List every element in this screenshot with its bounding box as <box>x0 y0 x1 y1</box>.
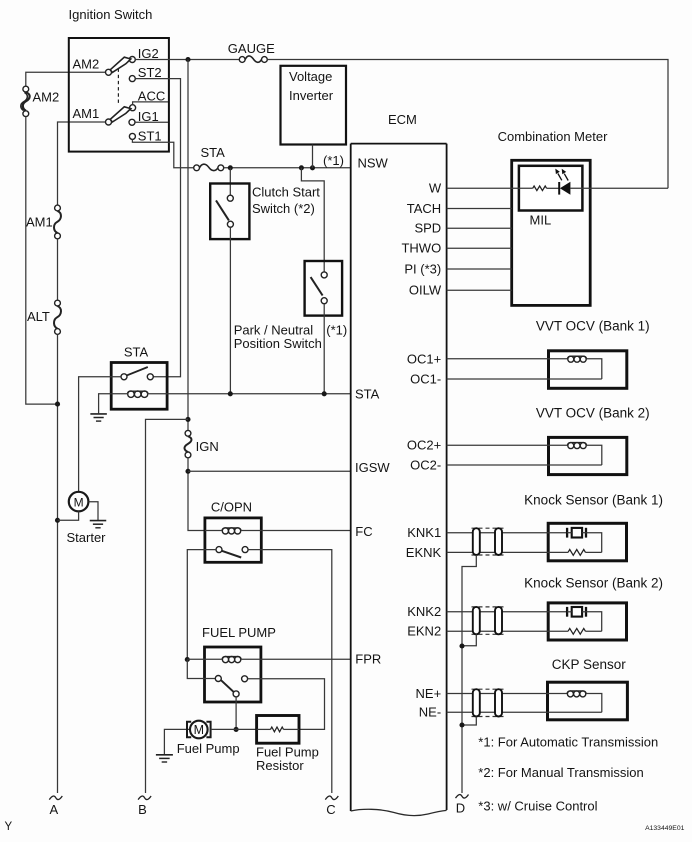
knock bank1 piezo <box>566 528 568 538</box>
svg-text:EKNK: EKNK <box>406 545 442 560</box>
shield drain CKP <box>462 717 476 726</box>
svg-text:SPD: SPD <box>414 221 441 236</box>
terminal ACC <box>130 105 136 111</box>
STA relay box <box>111 363 167 410</box>
fuel pump bracket right <box>206 722 210 737</box>
ground starter <box>90 520 107 522</box>
wire NE- <box>447 711 602 713</box>
VVT bank2 coil <box>567 443 586 446</box>
svg-text:IG1: IG1 <box>138 109 159 124</box>
ignition switch box <box>69 38 169 152</box>
svg-text:Voltage: Voltage <box>289 69 332 84</box>
combination meter box <box>512 160 591 305</box>
MIL inner box <box>519 166 583 211</box>
knock bank2 resistor <box>568 628 586 634</box>
svg-text:OC1-: OC1- <box>410 371 441 386</box>
svg-text:A133449E01: A133449E01 <box>645 825 685 832</box>
STA relay contact right <box>147 374 153 380</box>
wire IG1 stub <box>135 121 168 123</box>
fuse AM2 <box>23 86 29 92</box>
wire TACH to combination meter <box>447 208 512 210</box>
junction dot clutch branch <box>228 165 233 170</box>
svg-text:FPR: FPR <box>355 652 381 667</box>
wire fuel pump right lead <box>211 728 257 730</box>
junction dot park/neutral branch <box>299 165 304 170</box>
C/OPN contact left <box>216 547 222 553</box>
svg-text:Clutch Start: Clutch Start <box>252 185 320 200</box>
clutch switch blade <box>216 200 229 220</box>
wire KNK2 <box>447 611 567 613</box>
junction dot IGSW branch <box>185 469 190 474</box>
C/OPN contact right <box>242 547 248 553</box>
twisted pair capsule knock2 a <box>473 607 480 634</box>
junction dot IGN top / B branch <box>185 417 190 422</box>
wire OC2- return <box>447 464 602 466</box>
wire OILW to combination meter <box>447 289 512 291</box>
ECM bottom torn edge <box>351 809 447 815</box>
svg-text:Knock Sensor (Bank 2): Knock Sensor (Bank 2) <box>524 576 663 591</box>
svg-text:C/OPN: C/OPN <box>211 499 252 514</box>
wire starter to junction <box>58 511 79 520</box>
svg-text:Position Switch: Position Switch <box>234 336 322 351</box>
shield drain knock1 <box>462 555 476 793</box>
ECM right edge <box>446 144 448 810</box>
fuse STA <box>194 165 200 171</box>
twisted pair capsule CKP a <box>473 689 480 716</box>
svg-text:*2: For Manual Transmission: *2: For Manual Transmission <box>478 765 643 780</box>
fp relay blade <box>221 680 234 692</box>
svg-text:Inverter: Inverter <box>289 88 334 103</box>
svg-text:(*1): (*1) <box>326 323 347 338</box>
wire AM2 terminal to AM2 fuse <box>26 72 106 86</box>
C/OPN relay box <box>205 518 261 562</box>
svg-text:AM2: AM2 <box>73 57 100 72</box>
fuel pump motor circle <box>190 721 208 739</box>
wire VVT bank2 coil loop <box>587 445 602 465</box>
twisted pair capsule CKP b <box>495 689 502 716</box>
svg-text:STA: STA <box>124 344 149 359</box>
svg-text:ST2: ST2 <box>138 65 162 80</box>
svg-text:(*1): (*1) <box>323 153 344 168</box>
svg-text:THWO: THWO <box>401 241 441 256</box>
wire ST1 to STA fuse <box>132 139 193 168</box>
CKP coil <box>567 691 586 694</box>
STA relay contact left <box>121 374 127 380</box>
junction dot IG2 branch <box>185 57 190 62</box>
wire IG2 vertical to IGN fuse <box>187 60 189 431</box>
junction dot fuel pump motor <box>234 727 239 732</box>
wire knock bank1 loop <box>586 533 602 553</box>
starter motor circle <box>69 492 89 512</box>
wire W to MIL resistor <box>447 187 533 189</box>
VVT OCV bank2 box <box>549 437 627 474</box>
wire ALT fuse down to connector A <box>57 334 59 793</box>
svg-text:IG2: IG2 <box>138 46 159 61</box>
wire STA relay coil to ground <box>99 394 112 413</box>
wire AM2 fuse down to junction <box>26 117 55 405</box>
svg-text:Knock Sensor (Bank 1): Knock Sensor (Bank 1) <box>524 493 663 508</box>
fuel pump resistor box <box>257 716 299 744</box>
svg-text:OC2+: OC2+ <box>407 438 441 453</box>
knock bank1 resistor <box>568 550 586 556</box>
wire EKNK <box>447 551 568 553</box>
wire THWO to combination meter <box>447 247 512 249</box>
fuse GAUGE <box>239 57 245 63</box>
svg-text:Starter: Starter <box>67 530 107 545</box>
MIL LED arrow 1 <box>558 174 562 181</box>
wire fuel pump left lead <box>164 729 190 754</box>
fp relay contact left <box>215 676 221 682</box>
voltage inverter box <box>281 66 347 145</box>
junction dot starter branch <box>55 518 60 523</box>
wire fp bottom contact down <box>235 697 237 730</box>
terminal AM2 <box>106 69 112 75</box>
connector A break <box>49 796 62 800</box>
svg-text:FC: FC <box>355 524 372 539</box>
junction dot shield drain knock2 <box>459 643 464 648</box>
wire EKN2 <box>447 630 568 632</box>
wire NE+ <box>447 693 567 695</box>
terminal IG1 <box>129 119 135 125</box>
svg-text:STA: STA <box>201 145 226 160</box>
VVT OCV bank1 box <box>549 351 627 389</box>
svg-text:*3: w/ Cruise Control: *3: w/ Cruise Control <box>478 798 597 813</box>
terminal ST2 <box>129 76 135 82</box>
junction dot clutch to STA wire <box>228 391 233 396</box>
C/OPN blade <box>222 551 241 558</box>
fp relay contact right <box>242 676 248 682</box>
ECM top edge <box>351 143 447 145</box>
fuse IGN <box>185 430 191 436</box>
svg-text:VVT OCV (Bank 2): VVT OCV (Bank 2) <box>536 406 650 421</box>
wire between AM1 and ALT fuses <box>57 239 59 300</box>
svg-text:IGN: IGN <box>196 439 219 454</box>
wire MIL resistor to LED <box>547 187 560 189</box>
wire PI (*3) to combination meter <box>447 268 512 270</box>
wire fp coil to ECM FPR <box>261 658 351 660</box>
svg-text:C: C <box>326 802 335 817</box>
ECM left edge <box>350 144 352 811</box>
svg-text:OC1+: OC1+ <box>407 351 441 366</box>
terminal AM1 <box>106 119 112 125</box>
svg-text:Ignition Switch: Ignition Switch <box>69 7 153 22</box>
wire MIL LED to right <box>570 187 668 189</box>
svg-text:NE-: NE- <box>419 705 441 720</box>
twisted pair capsule knock2 b <box>495 607 502 634</box>
dashed mechanical link <box>117 69 119 105</box>
wire AM1 terminal to left line <box>58 122 106 205</box>
wire OC2+ to coil <box>447 444 568 446</box>
connector C break <box>325 796 338 800</box>
svg-text:*1: For Automatic Transmission: *1: For Automatic Transmission <box>478 735 658 750</box>
terminal ST1 <box>129 133 135 139</box>
svg-text:ACC: ACC <box>138 88 165 103</box>
wire CKP coil loop <box>586 694 602 713</box>
svg-text:ST1: ST1 <box>138 129 162 144</box>
svg-text:Switch (*2): Switch (*2) <box>252 201 315 216</box>
svg-text:D: D <box>456 800 465 815</box>
wire p/n switch to STA wire <box>323 304 325 394</box>
svg-text:EKN2: EKN2 <box>407 624 441 639</box>
svg-text:NE+: NE+ <box>416 686 442 701</box>
MIL resistor <box>533 186 547 191</box>
junction dot fuel pump coil <box>185 657 190 662</box>
wire junction to fuel pump coil <box>187 658 204 660</box>
wire STA relay coil to ECM STA <box>167 393 351 395</box>
svg-text:AM2: AM2 <box>33 90 60 105</box>
twisted pair capsule knock1 a <box>473 528 480 555</box>
shield dashes CKP <box>472 688 504 690</box>
svg-text:AM1: AM1 <box>26 215 53 230</box>
svg-text:B: B <box>138 802 147 817</box>
twisted pair capsule knock1 b <box>495 528 502 555</box>
wire KNK1 <box>447 532 567 534</box>
park/neutral switch box <box>305 261 343 316</box>
wire to park/neutral switch <box>301 168 324 272</box>
wire C/OPN coil to ECM FC <box>261 530 350 532</box>
rotor blade AM1-ACC <box>110 107 131 122</box>
p/n switch top contact <box>321 272 327 278</box>
svg-text:KNK1: KNK1 <box>407 525 441 540</box>
svg-text:IGSW: IGSW <box>355 460 390 475</box>
terminal IG2 <box>129 57 135 63</box>
svg-text:OILW: OILW <box>409 283 442 298</box>
ground fuel pump <box>156 754 173 756</box>
C/OPN relay coil <box>222 528 241 531</box>
svg-text:VVT OCV (Bank 1): VVT OCV (Bank 1) <box>536 319 650 334</box>
fp relay contact bottom <box>233 691 239 697</box>
svg-text:GAUGE: GAUGE <box>228 41 275 56</box>
svg-text:PI (*3): PI (*3) <box>404 261 441 276</box>
p/n switch bottom contact <box>321 298 327 304</box>
wire junction down to fp switch <box>187 660 215 679</box>
wire STA fuse to ECM NSW <box>224 167 351 169</box>
junction dot voltage inverter lead <box>310 165 315 170</box>
svg-text:A: A <box>49 802 58 817</box>
junction dot p/n to STA wire <box>322 391 327 396</box>
wire STA relay switch to starter <box>79 377 121 492</box>
CKP sensor box <box>548 682 628 720</box>
svg-text:MIL: MIL <box>530 213 552 228</box>
wire ACC stub <box>133 102 168 105</box>
wire IG2 to GAUGE fuse <box>135 59 239 61</box>
wire IGSW to ECM <box>188 470 351 472</box>
wire starter to ground <box>88 502 98 520</box>
connector D break <box>456 795 469 799</box>
junction dot shield drain CKP <box>459 722 464 727</box>
wire fp right contact to resistor <box>248 679 325 730</box>
wire OC1+ to coil <box>447 358 568 360</box>
wire voltage inverter lead <box>312 145 314 168</box>
MIL LED cathode bar <box>558 182 560 195</box>
STA relay coil <box>127 391 148 394</box>
shield dashes knock1 <box>472 527 504 529</box>
svg-text:Combination Meter: Combination Meter <box>498 129 608 144</box>
knock bank1 box <box>548 523 626 561</box>
fuel pump bracket left <box>187 722 191 737</box>
svg-text:W: W <box>429 181 442 196</box>
svg-text:M: M <box>74 495 84 509</box>
rotor blade AM2-IG2 <box>110 57 131 72</box>
clutch start switch box <box>210 184 249 240</box>
wire C/OPN switch to connector C <box>248 550 332 793</box>
wire IGN fuse to C/OPN coil <box>188 458 205 531</box>
junction dot AM2/AM1 lines <box>55 402 60 407</box>
fuse ALT <box>55 300 61 306</box>
fuel pump relay coil <box>222 657 241 660</box>
svg-text:OC2-: OC2- <box>410 457 441 472</box>
svg-text:Y: Y <box>5 821 13 833</box>
wire clutch switch to STA wire <box>229 227 231 394</box>
MIL LED arrow 2 <box>564 174 568 181</box>
wire knock bank2 loop <box>586 612 602 632</box>
wire VVT bank1 coil loop <box>587 359 602 379</box>
connector B break <box>138 796 151 800</box>
VVT bank1 coil <box>567 356 586 359</box>
wire branch to connector B <box>146 419 189 793</box>
svg-text:AM1: AM1 <box>73 106 100 121</box>
p/n switch blade <box>311 277 323 295</box>
shield dashes knock2 <box>472 606 504 608</box>
wire to clutch switch <box>229 168 231 195</box>
STA relay blade <box>127 367 148 375</box>
wire GAUGE fuse to top right corner <box>267 60 668 189</box>
clutch switch top contact <box>227 195 233 201</box>
clutch switch bottom contact <box>227 221 233 227</box>
fuel pump resistor element <box>257 728 271 730</box>
wire SPD to combination meter <box>447 227 512 229</box>
MIL LED triangle <box>560 182 571 195</box>
wire ST2 down to STA relay <box>135 79 180 377</box>
svg-text:ECM: ECM <box>388 112 417 127</box>
fuel pump relay box <box>205 647 261 702</box>
svg-text:M: M <box>194 723 204 737</box>
svg-text:Fuel Pump: Fuel Pump <box>177 741 240 756</box>
svg-text:KNK2: KNK2 <box>407 604 441 619</box>
svg-text:STA: STA <box>355 386 380 401</box>
svg-text:TACH: TACH <box>407 201 441 216</box>
svg-text:CKP Sensor: CKP Sensor <box>552 657 627 672</box>
wire OC1- return <box>447 378 602 380</box>
ground STA relay <box>90 413 107 415</box>
svg-text:Resistor: Resistor <box>256 758 304 773</box>
knock bank2 box <box>548 603 626 640</box>
shield drain knock2 <box>462 634 476 646</box>
knock bank2 piezo <box>566 607 568 617</box>
fuse AM1 <box>55 205 61 211</box>
svg-text:ALT: ALT <box>27 309 50 324</box>
svg-text:NSW: NSW <box>358 155 389 170</box>
wire C/OPN switch to fuel pump relay <box>187 550 216 660</box>
svg-text:FUEL PUMP: FUEL PUMP <box>202 625 276 640</box>
